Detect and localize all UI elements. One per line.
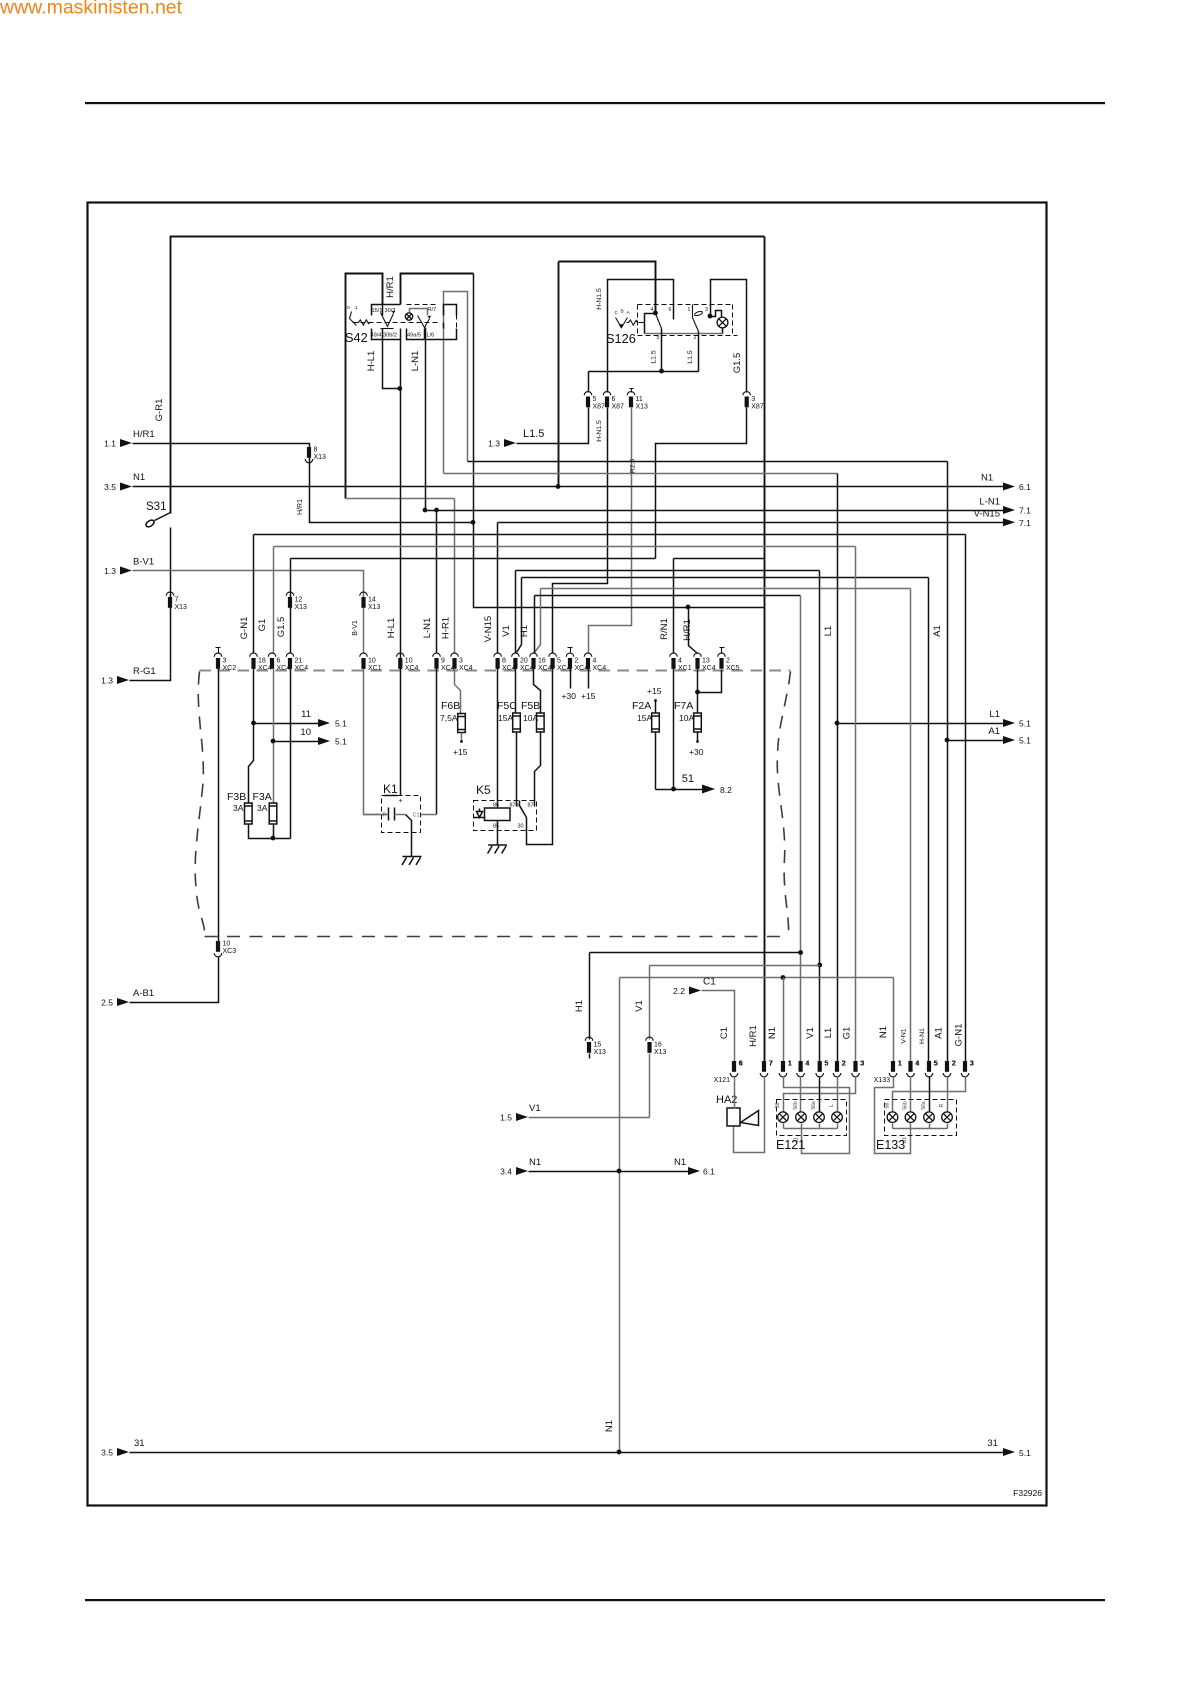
diagram border frame <box>88 203 1047 1506</box>
svg-text:7: 7 <box>769 1061 773 1068</box>
svg-text:21: 21 <box>295 658 303 665</box>
connector XC4 pin 18 <box>251 658 255 669</box>
svg-text:XC5: XC5 <box>726 665 740 672</box>
wire N1 drop to X121:1 <box>783 978 785 1062</box>
S42 switch lever 0-1 <box>350 312 357 326</box>
connector X133 pin 5 <box>927 1061 931 1072</box>
svg-text:XC4: XC4 <box>593 665 607 672</box>
svg-text:10: 10 <box>300 727 311 738</box>
wire H-R1 below XC4:3 to F6B <box>455 669 461 714</box>
S126 switch squiggle <box>627 320 638 325</box>
connector X121 pin 6 <box>732 1061 736 1072</box>
svg-text:N1: N1 <box>604 1420 615 1432</box>
junction dot F3A bus <box>271 836 276 841</box>
svg-text:G1.5: G1.5 <box>732 353 743 374</box>
wire H/R1 below XC4:13 to F7A and XC5:2 link <box>698 669 722 714</box>
svg-text:N1: N1 <box>878 1026 889 1038</box>
svg-text:X13: X13 <box>175 604 188 611</box>
fuse F5C 15A <box>513 713 521 732</box>
connector XC4 pin 9 <box>434 658 438 669</box>
svg-text:G1: G1 <box>257 619 268 632</box>
wire V-N15 coil to ground <box>497 669 499 846</box>
svg-text:K5: K5 <box>476 783 491 797</box>
svg-text:H-L1: H-L1 <box>366 351 377 372</box>
svg-text:4: 4 <box>916 1061 920 1068</box>
svg-text:56b: 56b <box>903 1101 909 1110</box>
svg-text:2: 2 <box>726 658 730 665</box>
wire H-L1 from 49/4 to junction <box>383 340 400 389</box>
svg-text:R/N1: R/N1 <box>659 618 670 640</box>
svg-text:5.1: 5.1 <box>1019 736 1031 746</box>
entry arrow 1.3 R-G1 <box>117 676 129 684</box>
connector XC4 pin 16 <box>531 658 535 669</box>
wire H-N1.5 X87:6 to terminal 6 stub <box>608 280 674 393</box>
svg-text:X13: X13 <box>314 454 327 461</box>
svg-text:A-B1: A-B1 <box>133 988 154 999</box>
E133 lamp R <box>942 1112 953 1123</box>
svg-text:A1: A1 <box>988 726 1000 737</box>
wire G1.5 row to XC4:21 via X13:12 <box>290 559 292 654</box>
svg-text:5.1: 5.1 <box>1019 719 1031 729</box>
K1 coil bars <box>389 808 395 821</box>
svg-text:L1.5: L1.5 <box>687 350 694 363</box>
svg-text:6.1: 6.1 <box>703 1167 715 1177</box>
svg-text:87a: 87a <box>510 803 520 809</box>
entry arrow 3.5 31 <box>117 1448 129 1456</box>
wire H1 column to X121:4 <box>800 596 802 1062</box>
svg-text:L1: L1 <box>823 1028 834 1039</box>
svg-text:F6B: F6B <box>441 700 460 712</box>
svg-text:F2A: F2A <box>632 700 651 712</box>
relay K1 dashed box <box>382 796 421 833</box>
wire L1 row from S42 loop <box>444 473 838 475</box>
svg-text:16: 16 <box>538 658 546 665</box>
junction dot 51 <box>671 787 676 792</box>
harness boundary dashed line upper <box>200 670 791 672</box>
wire V-N15 drop to XC4:8 <box>497 523 499 654</box>
svg-text:L/6: L/6 <box>427 333 435 339</box>
wire A1 row from S42 loop <box>468 461 948 463</box>
wire X121:4 to E121 lamp2 <box>800 1077 802 1112</box>
svg-text:B: B <box>621 309 624 315</box>
wire H1 lower run to X13:15 <box>590 953 801 1040</box>
wire H1 below XC4:16 through F5B to K5 <box>534 669 541 714</box>
E121 lamp 56b <box>796 1112 807 1123</box>
svg-text:1: 1 <box>898 1061 902 1068</box>
wire S42 left box (H-R1 net upper) <box>346 274 383 499</box>
svg-text:3.5: 3.5 <box>101 1448 113 1458</box>
wire G-N1 drop to XC4:18 <box>253 535 255 654</box>
wire H-R1 column to XC4:3 <box>454 499 456 654</box>
S42 dashed outline <box>353 322 441 324</box>
S42 terminal cells 15/1 30/3 49/4 30b/2 <box>372 305 401 340</box>
wire S126 loop down to N1 line <box>558 262 560 487</box>
fuse F5B 10A <box>537 713 545 732</box>
connector X133 pin 2 <box>945 1061 949 1072</box>
E133 lamp bus <box>893 1124 948 1129</box>
wire H1 staircase b <box>535 596 801 654</box>
E133 lamp 58 <box>887 1112 898 1123</box>
svg-text:+30: +30 <box>562 691 577 701</box>
connector X121 pin 1 <box>781 1061 785 1072</box>
connector XC3 pin 10 <box>216 941 220 952</box>
wire N1 lower distribution <box>620 978 894 1453</box>
wire B-V1 entry through X13:14 and XC1:10 to K1 <box>133 571 388 815</box>
svg-text:7.1: 7.1 <box>1019 518 1031 528</box>
connector XC4 pin 5 <box>551 658 555 669</box>
svg-text:11: 11 <box>636 396 643 403</box>
wire HA2 loop X121:6 to X121:7 <box>734 1077 765 1153</box>
svg-text:E133: E133 <box>876 1138 905 1152</box>
stub above XC5:2 <box>720 648 725 653</box>
svg-text:1.3: 1.3 <box>488 439 500 449</box>
svg-text:L-N1: L-N1 <box>410 351 421 372</box>
wire K1 coil feed <box>364 814 389 816</box>
wire G1 column to X121:3 <box>855 547 857 1062</box>
svg-text:3: 3 <box>459 658 463 665</box>
svg-text:XC4: XC4 <box>459 665 473 672</box>
svg-text:XC1: XC1 <box>678 665 692 672</box>
wire S42 top loop (H/R1 terminal feed) <box>401 274 474 305</box>
wire H/R1 entry to X13:8 and S42 <box>133 274 474 523</box>
svg-text:X13: X13 <box>654 1049 667 1056</box>
svg-text:L-N1: L-N1 <box>422 618 433 639</box>
svg-text:F5C: F5C <box>497 700 517 712</box>
wire X121:2 to E121 lamp4 <box>837 1077 839 1112</box>
svg-text:5: 5 <box>825 1061 829 1068</box>
connector XC4 pin 13 <box>695 658 699 669</box>
svg-text:F5B: F5B <box>521 700 540 712</box>
svg-text:15A: 15A <box>498 713 513 723</box>
svg-text:12: 12 <box>295 597 303 604</box>
svg-text:XC3: XC3 <box>223 948 237 955</box>
entry arrow 1.3 L1.5 <box>504 439 516 447</box>
svg-text:11: 11 <box>301 709 311 720</box>
svg-text:4: 4 <box>593 658 597 665</box>
entry arrow 3.4 N1 <box>516 1167 528 1175</box>
svg-text:N1: N1 <box>767 1027 778 1039</box>
wire H/R1 XC4:13 drop from H/R1 row <box>689 608 698 654</box>
entry arrow 1.3 B-V1 <box>120 567 132 575</box>
wire XC4:4 stub to +15 <box>588 669 590 689</box>
svg-text:7.1: 7.1 <box>1019 506 1031 516</box>
svg-text:L1.5: L1.5 <box>651 350 658 363</box>
svg-text:10A: 10A <box>523 713 538 723</box>
svg-text:A1: A1 <box>932 625 943 637</box>
junction dot H/R1 row <box>686 605 691 610</box>
wire 51 line with F2A <box>656 733 703 790</box>
wire G-N1 column to X133:3 <box>965 535 967 1062</box>
E133 dashed box <box>885 1100 957 1136</box>
entry arrow 3.5 N1 <box>120 483 132 491</box>
wire S42 inner loop feeding L1 and A1 rows <box>444 292 468 474</box>
svg-text:8: 8 <box>314 447 318 454</box>
S126 dashed box <box>638 304 733 306</box>
svg-text:N1: N1 <box>674 1157 686 1168</box>
svg-text:X121: X121 <box>714 1077 730 1084</box>
junction dot H/R1 S42 box <box>471 520 476 525</box>
svg-text:X133: X133 <box>874 1077 890 1084</box>
harness boundary right wavy edge <box>777 672 790 937</box>
wire L1 exit line <box>838 723 1004 725</box>
wire C1 entry to X121:6 <box>702 991 735 1062</box>
connector XC2 pin 3 <box>216 658 220 669</box>
svg-text:P: P <box>383 813 387 819</box>
fuse F6B 7.5A <box>458 714 466 733</box>
svg-text:H1: H1 <box>519 625 530 637</box>
svg-text:XC2: XC2 <box>223 665 237 672</box>
svg-text:B-V1: B-V1 <box>133 557 154 568</box>
K5 diode <box>474 812 486 818</box>
harness boundary left wavy edge <box>195 672 204 937</box>
svg-text:+15: +15 <box>453 747 468 757</box>
S42 switch squiggle <box>357 320 371 325</box>
svg-text:H-N1: H-N1 <box>919 1028 926 1044</box>
svg-text:V1: V1 <box>634 1000 645 1012</box>
svg-text:H-L1: H-L1 <box>386 618 397 639</box>
junction dot N1 31 <box>617 1450 622 1455</box>
wire arrow line 10 to 5.1 <box>274 741 319 743</box>
svg-text:L1: L1 <box>823 626 834 637</box>
junction dot S126 terminal 4 <box>653 311 658 316</box>
wire G1 drop to XC4:6 <box>273 547 275 654</box>
S126 lamp bracket step <box>711 311 722 317</box>
wire L1 column to X121:2 <box>837 474 839 1062</box>
wire L1.5 a from terminal 5 <box>661 329 663 372</box>
wire K1 to L-N1 column <box>421 814 437 816</box>
connector XC5 pin 2 <box>719 658 723 669</box>
fuse F3B 3A <box>245 803 253 824</box>
svg-text:F7A: F7A <box>674 700 693 712</box>
svg-text:L1: L1 <box>989 709 1000 720</box>
wire N1 row <box>133 486 1004 488</box>
harness boundary dashed line lower <box>205 936 789 938</box>
svg-text:XC4: XC4 <box>702 665 716 672</box>
wire V1 entry line <box>529 1054 650 1118</box>
connector X13 pin 7 <box>168 597 172 608</box>
svg-text:XC4: XC4 <box>405 665 419 672</box>
wire G1.5 from X87:3 down and left <box>656 408 747 559</box>
svg-text:31: 31 <box>134 1438 145 1449</box>
E133 lamp 56b <box>905 1112 916 1123</box>
junction dot L-N1 XC4:9 <box>434 508 439 513</box>
light unit E121 N1 routing <box>784 1077 850 1154</box>
svg-text:3: 3 <box>751 396 755 403</box>
wire S126 grey return under lamp <box>645 333 723 335</box>
wire X121:5 to E121 lamp3 <box>819 1077 821 1112</box>
svg-text:1.5: 1.5 <box>500 1113 512 1123</box>
svg-text:G1: G1 <box>842 1027 853 1040</box>
K5 coil <box>485 808 511 821</box>
svg-text:F3B: F3B <box>227 791 246 803</box>
wire V1 staircase b with jog <box>517 578 929 653</box>
svg-text:3: 3 <box>223 658 227 665</box>
switch S31 <box>155 513 171 521</box>
S42 main switch contact <box>381 313 394 327</box>
wire X133:5 to E133 lamp3 <box>929 1077 931 1112</box>
svg-text:51: 51 <box>682 773 694 785</box>
wire V1 lower run to X13:16 <box>650 966 820 1040</box>
wire A1 column to X133:2 <box>947 462 949 1062</box>
svg-text:H-N1.5: H-N1.5 <box>596 288 603 310</box>
svg-text:49/4: 49/4 <box>371 333 382 339</box>
light unit E133 G-N1 routing <box>893 1077 966 1112</box>
svg-text:S31: S31 <box>146 501 166 513</box>
stub above X13:11 <box>630 389 634 393</box>
svg-text:F3A: F3A <box>253 791 272 803</box>
junction dot H-L1/30b/2 <box>397 386 402 391</box>
svg-text:15A: 15A <box>637 713 652 723</box>
light unit E133 N1 routing <box>875 1077 911 1154</box>
wire F7A stub to +30 <box>697 733 699 742</box>
junction dot H1 lower <box>798 950 803 955</box>
K1 ground <box>403 856 422 858</box>
svg-text:10: 10 <box>368 658 376 665</box>
svg-text:R: R <box>939 1103 945 1107</box>
svg-text:H-R1: H-R1 <box>441 617 452 639</box>
wire R/N1 row segment <box>674 558 765 560</box>
wire L1.5 bus to X87:5 <box>589 372 699 393</box>
svg-text:58: 58 <box>775 1103 781 1109</box>
wire H-N1.5 from X87:6 down to XC4:5 <box>553 408 608 653</box>
svg-text:B-V1: B-V1 <box>352 620 359 636</box>
connector X13 pin 14 <box>361 597 365 608</box>
wire XC4:2 stub to +30 <box>570 669 572 689</box>
svg-text:20: 20 <box>520 658 528 665</box>
svg-text:87: 87 <box>528 803 534 809</box>
connector X13 pin 8 <box>307 447 311 458</box>
wire V1 below XC4:20 through F5C to K5 <box>515 669 517 714</box>
connector X133 pin 4 <box>908 1061 912 1072</box>
S126 contact 1-2 <box>693 305 699 332</box>
wire R/N1 below XC1:4 to 51 line <box>673 669 675 790</box>
svg-text:E121: E121 <box>776 1138 805 1152</box>
svg-text:H1: H1 <box>574 1000 585 1012</box>
wire F2A stub to +15 <box>655 702 657 714</box>
svg-text:3A: 3A <box>233 803 244 813</box>
connector X13 pin 15 <box>587 1042 591 1053</box>
svg-text:F32926: F32926 <box>1013 1488 1042 1498</box>
svg-text:+15: +15 <box>581 691 596 701</box>
wire L-N1 from S42 switch <box>425 328 427 511</box>
svg-text:G-N1: G-N1 <box>239 617 250 640</box>
connector XC1 pin 4 <box>671 658 675 669</box>
svg-text:4: 4 <box>678 658 682 665</box>
svg-text:5: 5 <box>593 396 597 403</box>
wire H/R1 lower run to right enclosure edge <box>474 523 765 608</box>
svg-text:6.1: 6.1 <box>1019 482 1031 492</box>
junction dot N1 line <box>617 1169 622 1174</box>
svg-text:2.2: 2.2 <box>673 986 685 996</box>
wire S42 lamp to R/7 cell <box>410 309 428 316</box>
svg-text:5: 5 <box>657 335 660 341</box>
svg-text:15: 15 <box>594 1042 602 1049</box>
svg-text:R-G1: R-G1 <box>133 666 156 677</box>
svg-text:XC4: XC4 <box>258 665 272 672</box>
svg-text:H/R1: H/R1 <box>385 276 396 298</box>
wire N1 drop to X133:1 <box>893 978 895 1062</box>
fuse F3A 3A <box>269 803 277 824</box>
K5 contact arm <box>520 801 527 818</box>
svg-text:2: 2 <box>952 1061 956 1068</box>
wire 30b/2 column (H-L1) to XC4:10 and K1 <box>400 340 402 796</box>
junction dot S126 lamp bracket <box>708 314 713 319</box>
svg-text:5.1: 5.1 <box>335 719 347 729</box>
svg-text:K1: K1 <box>383 782 398 796</box>
wire G-R1 enclosure left/top edge <box>171 237 765 514</box>
connector X87 pin 3 <box>745 397 749 408</box>
junction dot A1 exit <box>945 738 950 743</box>
junction dot V1 lower <box>817 963 822 968</box>
connector X87 pin 5 <box>586 397 590 408</box>
K1 contact <box>395 814 406 816</box>
svg-text:X87: X87 <box>593 404 606 411</box>
svg-text:L-N1: L-N1 <box>979 497 1000 508</box>
connector X121 pin 2 <box>835 1061 839 1072</box>
svg-text:H-N1.5: H-N1.5 <box>596 420 603 442</box>
svg-text:5: 5 <box>934 1061 938 1068</box>
svg-text:C1: C1 <box>703 977 716 988</box>
svg-text:X13: X13 <box>636 404 649 411</box>
relay K5 dashed box <box>474 801 537 831</box>
svg-text:www.maskinisten.net: www.maskinisten.net <box>0 0 183 19</box>
junction dot L-N1 S42 <box>423 508 428 513</box>
svg-text:56a: 56a <box>921 1101 927 1110</box>
wire V1 staircase a <box>516 571 820 654</box>
svg-text:+30: +30 <box>689 747 704 757</box>
wire S126 feed loop from N1 <box>559 262 656 314</box>
svg-text:H/R1: H/R1 <box>748 1025 759 1047</box>
wire right enclosure edge to X121:7 (H/R1 feed) <box>764 237 766 1062</box>
connector X121 pin 3 <box>853 1061 857 1072</box>
connector X133 pin 3 <box>963 1061 967 1072</box>
svg-text:N1: N1 <box>133 472 145 483</box>
svg-text:V-N1: V-N1 <box>901 1028 908 1043</box>
svg-text:30: 30 <box>518 824 524 830</box>
wire H-R1 horizontal run y=498 <box>346 498 455 500</box>
entry arrow 2.2 C1 <box>689 987 701 995</box>
svg-text:2: 2 <box>842 1061 846 1068</box>
svg-text:V-N15: V-N15 <box>974 509 1000 520</box>
svg-text:9: 9 <box>441 658 445 665</box>
svg-text:31: 31 <box>987 1438 998 1449</box>
connector XC4 pin 20 <box>513 658 517 669</box>
connector XC4 pin 2 <box>568 658 572 669</box>
svg-text:V1: V1 <box>501 625 512 637</box>
svg-text:6: 6 <box>669 307 672 313</box>
junction dot H/R1 F7A <box>695 690 700 695</box>
svg-text:10: 10 <box>223 941 231 948</box>
junction dot N1/S126 loop <box>556 484 561 489</box>
connector X87 pin 6 <box>605 397 609 408</box>
wire G1 row <box>274 546 856 548</box>
svg-text:H/R1: H/R1 <box>682 619 693 641</box>
connector XC1 pin 10 <box>361 658 365 669</box>
svg-text:7,5A: 7,5A <box>440 713 458 723</box>
entry arrow 1.5 V1 <box>516 1113 528 1121</box>
connector XC4 pin 4 <box>586 658 590 669</box>
wire V-N15 row from XC4:8 to exit 7.1 <box>498 522 1004 524</box>
S126 indicator lamp <box>717 317 728 328</box>
svg-text:1: 1 <box>355 305 358 311</box>
wire H-N1 column to X133:5 <box>928 578 930 1062</box>
wire R/N1 drop to XC1:4 <box>673 559 675 654</box>
wire G1.5 lamp bracket to X87:3 <box>711 280 747 393</box>
junction dot L1 exit <box>835 721 840 726</box>
svg-text:49a/5: 49a/5 <box>407 333 421 339</box>
svg-text:R/7: R/7 <box>428 307 437 313</box>
svg-text:C: C <box>615 310 619 316</box>
